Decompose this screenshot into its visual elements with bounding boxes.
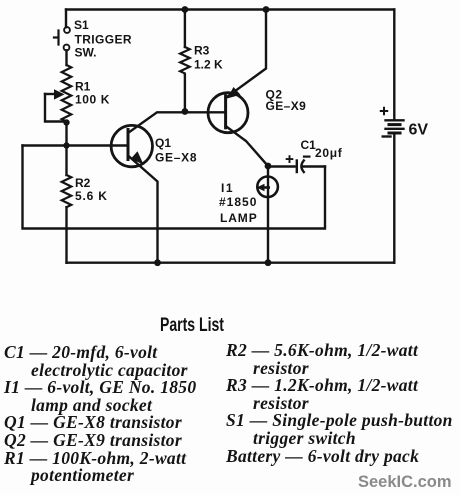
svg-text:5.6 K: 5.6 K bbox=[75, 189, 108, 203]
svg-text:LAMP: LAMP bbox=[220, 211, 258, 225]
svg-text:6V: 6V bbox=[409, 122, 429, 139]
svg-text:SW.: SW. bbox=[75, 46, 97, 60]
svg-text:C1: C1 bbox=[301, 138, 317, 152]
svg-text:R3: R3 bbox=[194, 44, 210, 58]
svg-text:R2: R2 bbox=[75, 176, 91, 190]
svg-text:100 K: 100 K bbox=[75, 93, 110, 107]
svg-text:TRIGGER: TRIGGER bbox=[75, 33, 132, 47]
svg-text:I1: I1 bbox=[221, 181, 234, 195]
svg-text:GE–X8: GE–X8 bbox=[155, 151, 197, 165]
svg-text:Q1: Q1 bbox=[155, 136, 171, 150]
svg-text:1.2 K: 1.2 K bbox=[194, 58, 223, 72]
svg-text:20μf: 20μf bbox=[315, 146, 343, 160]
svg-text:R1: R1 bbox=[75, 80, 91, 94]
svg-text:S1: S1 bbox=[74, 18, 89, 32]
svg-text:#1850: #1850 bbox=[219, 195, 257, 209]
svg-text:GE–X9: GE–X9 bbox=[266, 99, 307, 113]
